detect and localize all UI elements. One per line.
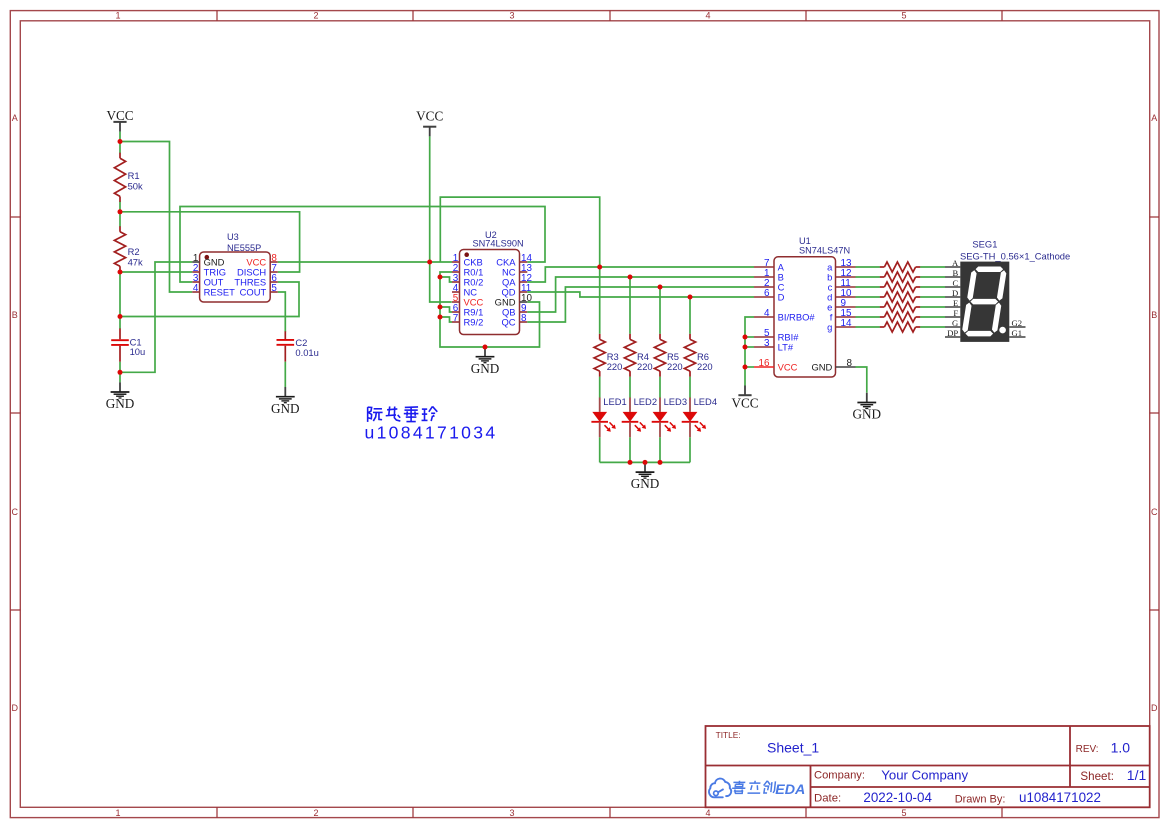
text annotation user id xyxy=(365,423,498,443)
svg-text:SN74LS47N: SN74LS47N xyxy=(799,246,850,256)
svg-text:E: E xyxy=(953,298,958,308)
svg-text:DP: DP xyxy=(947,328,958,338)
svg-text:7: 7 xyxy=(453,313,459,324)
wire TRIG-THRES rail xyxy=(119,272,121,317)
svg-text:GND: GND xyxy=(811,362,832,373)
node junction tap R4 xyxy=(628,275,633,280)
wire U1 GND pin8 xyxy=(856,367,867,393)
svg-text:QC: QC xyxy=(501,317,515,328)
svg-text:C: C xyxy=(12,507,19,517)
svg-text:Company:: Company: xyxy=(814,770,865,782)
svg-text:RESET: RESET xyxy=(204,287,236,298)
svg-text:Sheet_1: Sheet_1 xyxy=(767,740,819,756)
svg-text:U1: U1 xyxy=(799,236,811,246)
svg-text:G1: G1 xyxy=(1012,328,1023,338)
wire xyxy=(119,132,121,142)
svg-text:VCC: VCC xyxy=(416,109,443,124)
wire VCC pin16 stub xyxy=(745,366,754,368)
svg-text:2: 2 xyxy=(313,808,318,818)
wire QC to U1.C xyxy=(527,287,754,322)
node junction VCC16 xyxy=(743,365,748,370)
capacitor C2 xyxy=(277,331,319,361)
svg-text:2: 2 xyxy=(313,11,318,21)
svg-text:LED1: LED1 xyxy=(603,396,626,407)
svg-text:BI/RBO#: BI/RBO# xyxy=(778,312,816,323)
power flag VCC (left) xyxy=(106,108,133,132)
node junction R9/2 xyxy=(438,315,443,320)
decoder U1 SN74LS47N xyxy=(754,236,856,377)
svg-text:5: 5 xyxy=(901,11,906,21)
svg-text:F: F xyxy=(953,308,958,318)
resistor segment Rf xyxy=(880,312,920,322)
power flag VCC (middle) xyxy=(416,109,443,137)
node junction tap R6 xyxy=(688,295,693,300)
node junction R1/R2/DISCH xyxy=(118,209,123,214)
node junction tap R5 xyxy=(658,285,663,290)
svg-text:NE555P: NE555P xyxy=(227,243,261,253)
wire VCC to U3 RESET xyxy=(120,142,192,293)
svg-text:3: 3 xyxy=(509,11,514,21)
wire R5 column xyxy=(659,287,661,462)
LED LED2 xyxy=(622,396,657,437)
node junction THRES/C1 xyxy=(118,314,123,319)
resistor segment Rd xyxy=(880,292,920,302)
svg-text:VCC: VCC xyxy=(778,362,798,373)
svg-text:TITLE:: TITLE: xyxy=(716,730,741,740)
svg-text:D: D xyxy=(12,703,19,713)
node junction R9/1 xyxy=(438,305,443,310)
node junction tap R3 xyxy=(597,265,602,270)
svg-text:1.0: 1.0 xyxy=(1111,740,1131,756)
svg-text:B: B xyxy=(12,310,18,320)
svg-text:Drawn By:: Drawn By: xyxy=(955,794,1006,806)
node junction rail GND xyxy=(643,460,648,465)
svg-text:A: A xyxy=(952,258,959,268)
svg-text:SN74LS90N: SN74LS90N xyxy=(473,239,524,249)
wire U1 output row xyxy=(856,306,946,308)
wire TRIG net xyxy=(120,271,192,273)
node junction U2 ground rail xyxy=(483,345,488,350)
svg-text:220: 220 xyxy=(607,361,623,372)
svg-text:220: 220 xyxy=(637,361,653,372)
svg-text:16: 16 xyxy=(759,358,770,369)
svg-text:2022-10-04: 2022-10-04 xyxy=(863,790,932,805)
wire R1 rail xyxy=(119,142,121,212)
wire LT stub xyxy=(745,346,754,348)
svg-text:LED3: LED3 xyxy=(664,396,687,407)
node junction VCC vertical xyxy=(427,260,432,265)
svg-text:3: 3 xyxy=(509,808,514,818)
svg-text:4: 4 xyxy=(193,283,199,294)
node junction LT xyxy=(743,345,748,350)
svg-text:VCC: VCC xyxy=(106,108,133,123)
svg-text:5: 5 xyxy=(901,808,906,818)
svg-text:0.01u: 0.01u xyxy=(295,347,318,358)
wire U1 output row xyxy=(856,286,946,288)
wire QA to CKB rail xyxy=(440,197,599,267)
svg-text:C: C xyxy=(1151,507,1158,517)
svg-text:R9/2: R9/2 xyxy=(464,317,484,328)
title block xyxy=(706,726,1150,807)
wire R2 rail xyxy=(119,212,121,272)
svg-text:6: 6 xyxy=(764,288,770,299)
text annotation owner name (CJK) xyxy=(368,406,438,421)
svg-text:LED2: LED2 xyxy=(634,396,657,407)
svg-text:Date:: Date: xyxy=(814,793,841,805)
node junction rail LED2 xyxy=(628,460,633,465)
svg-text:4: 4 xyxy=(705,11,710,21)
resistor R5 220 xyxy=(654,334,682,377)
svg-text:D: D xyxy=(778,292,785,303)
svg-text:D: D xyxy=(1151,703,1158,713)
LED LED4 xyxy=(682,396,717,437)
svg-text:u1084171022: u1084171022 xyxy=(1019,790,1101,805)
resistor R2 xyxy=(114,226,143,271)
op-amp/timer U3 NE555P xyxy=(192,232,278,302)
wire QA to U1.A xyxy=(527,267,754,282)
svg-text:G2: G2 xyxy=(1012,318,1023,328)
wire R3 column xyxy=(599,267,601,462)
wire U2 reset pins to ground: staircase xyxy=(440,272,540,347)
node junction R2/TRIG xyxy=(118,270,123,275)
svg-text:10u: 10u xyxy=(130,346,146,357)
svg-text:LED4: LED4 xyxy=(694,396,717,407)
svg-text:g: g xyxy=(827,322,832,333)
svg-text:D: D xyxy=(952,288,958,298)
resistor segment Rc xyxy=(880,282,920,292)
wire COUT to C2 xyxy=(278,292,286,332)
svg-text:EDA: EDA xyxy=(775,782,805,798)
svg-text:GND: GND xyxy=(631,476,660,491)
svg-text:Your Company: Your Company xyxy=(881,767,968,782)
wire GND to U3 pin1 xyxy=(120,262,192,372)
node junction rail LED3 xyxy=(658,460,663,465)
wire QD to U1.D xyxy=(527,292,754,297)
svg-text:SEG-TH_0.56×1_Cathode: SEG-TH_0.56×1_Cathode xyxy=(960,251,1070,262)
svg-text:GND: GND xyxy=(853,407,882,422)
wire R4 column xyxy=(629,277,631,462)
wire U1 output row xyxy=(856,276,946,278)
svg-text:VCC: VCC xyxy=(731,396,758,411)
wire U1 output row xyxy=(856,316,946,318)
svg-text:GND: GND xyxy=(271,401,300,416)
ground GND (U1) xyxy=(853,393,882,422)
wire U1 output row xyxy=(856,266,946,268)
svg-text:A: A xyxy=(12,113,18,123)
svg-text:8: 8 xyxy=(521,313,527,324)
ground GND (LEDs) xyxy=(631,462,660,491)
wire C2 bottom xyxy=(284,362,286,387)
resistor segment Rb xyxy=(880,272,920,282)
resistor segment Ra xyxy=(880,262,920,272)
svg-text:SEG1: SEG1 xyxy=(972,239,997,250)
svg-text:REV:: REV: xyxy=(1076,744,1099,755)
svg-text:50k: 50k xyxy=(128,180,143,191)
logo JLC EDA cloud xyxy=(709,779,805,798)
wire BI/RBO to VCC xyxy=(745,317,754,386)
node junction VCC/R1 xyxy=(118,139,123,144)
svg-text:47k: 47k xyxy=(128,256,143,267)
svg-text:C: C xyxy=(952,278,958,288)
wire VCC horizontal U3.8 to U2.1 xyxy=(278,261,452,263)
resistor R3 220 xyxy=(594,334,622,377)
node junction R0/2 xyxy=(438,275,443,280)
wire RBI stub xyxy=(745,336,754,338)
resistor R6 220 xyxy=(684,334,712,377)
ground GND (C2) xyxy=(271,387,300,416)
wire C1 bottom xyxy=(119,362,121,373)
capacitor C1 xyxy=(111,329,145,362)
resistor R1 xyxy=(114,153,143,202)
counter U2 SN74LS90N xyxy=(452,230,532,335)
wire C1 top xyxy=(119,317,121,330)
svg-text:Sheet:: Sheet: xyxy=(1080,770,1114,783)
LED LED1 xyxy=(591,396,626,437)
wire to GND symbol xyxy=(119,372,121,382)
svg-text:220: 220 xyxy=(667,361,683,372)
svg-text:U3: U3 xyxy=(227,232,239,242)
wire DISCH net xyxy=(120,212,300,272)
svg-text:14: 14 xyxy=(841,318,852,329)
LED LED3 xyxy=(652,396,687,437)
svg-text:A: A xyxy=(1151,113,1157,123)
svg-text:220: 220 xyxy=(697,361,713,372)
svg-text:G: G xyxy=(952,318,958,328)
svg-text:4: 4 xyxy=(705,808,710,818)
wire QB to U1.B xyxy=(527,277,754,312)
wire OUT to CKA rail xyxy=(180,207,545,283)
svg-text:GND: GND xyxy=(106,396,135,411)
svg-text:1/1: 1/1 xyxy=(1127,767,1147,783)
display SEG1 SEG-TH_0.56x1_Cathode xyxy=(945,239,1070,342)
svg-text:GND: GND xyxy=(471,361,500,376)
svg-text:5: 5 xyxy=(271,283,277,294)
ground GND (U2) xyxy=(471,347,500,376)
resistor segment Re xyxy=(880,302,920,312)
resistor segment Rg xyxy=(880,322,920,332)
wire U1 output row xyxy=(856,296,946,298)
ground GND (C1) xyxy=(106,382,135,411)
svg-text:u1084171034: u1084171034 xyxy=(365,423,498,443)
svg-text:LT#: LT# xyxy=(778,342,794,353)
power flag VCC (U1) xyxy=(731,386,758,411)
seven segment digit xyxy=(962,266,1007,337)
svg-text:B: B xyxy=(952,268,958,278)
wire THRES net xyxy=(120,282,299,317)
wire R6 column xyxy=(689,297,691,462)
svg-text:B: B xyxy=(1151,310,1157,320)
svg-text:1: 1 xyxy=(115,808,120,818)
resistor R4 220 xyxy=(624,334,652,377)
wire VCC2 vertical xyxy=(430,136,452,302)
svg-text:4: 4 xyxy=(764,308,770,319)
node junction C1/GND xyxy=(118,370,123,375)
svg-text:COUT: COUT xyxy=(240,287,267,298)
svg-text:3: 3 xyxy=(764,338,770,349)
node junction RBI xyxy=(743,335,748,340)
wire LED ground rail xyxy=(600,461,690,463)
wire U1 output row xyxy=(856,326,946,328)
svg-text:8: 8 xyxy=(847,358,853,369)
svg-text:1: 1 xyxy=(115,11,120,21)
